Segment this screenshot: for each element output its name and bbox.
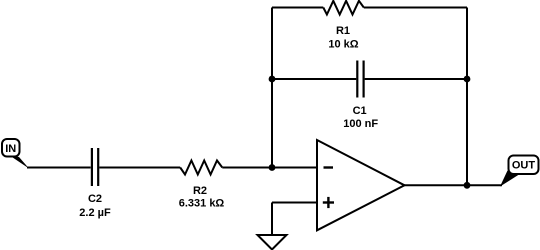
- svg-text:OUT: OUT: [512, 160, 536, 172]
- node junction left-C1: [269, 76, 276, 83]
- wire non-inverting input horizontal: [272, 202, 317, 204]
- wire top-left segment: [272, 7, 323, 9]
- wire input segment 3 (to inverting input): [222, 167, 317, 169]
- resistor R2: [180, 161, 222, 175]
- wire right vertical: [466, 8, 468, 186]
- wire non-inverting input vertical: [271, 203, 273, 235]
- wire output: [405, 184, 503, 186]
- svg-text:R2: R2: [193, 185, 207, 197]
- ground: [258, 235, 287, 250]
- node junction right-C1: [464, 76, 471, 83]
- svg-text:R1: R1: [336, 25, 350, 37]
- wire input segment 1: [27, 167, 91, 169]
- op-amp U1: [317, 140, 405, 230]
- capacitor C1: [357, 61, 363, 98]
- svg-text:2.2 µF: 2.2 µF: [79, 207, 111, 219]
- svg-text:C2: C2: [88, 193, 102, 205]
- svg-text:IN: IN: [5, 143, 16, 155]
- svg-text:6.331 kΩ: 6.331 kΩ: [179, 198, 225, 210]
- node junction output: [464, 182, 471, 189]
- wire top-right segment: [364, 7, 467, 9]
- svg-text:C1: C1: [353, 105, 367, 117]
- resistor R1: [323, 1, 364, 15]
- wire left vertical: [271, 8, 273, 168]
- wire C1 branch right: [365, 78, 467, 80]
- node junction left-input: [269, 164, 276, 171]
- capacitor C2: [92, 148, 98, 186]
- wire C1 branch left: [272, 78, 356, 80]
- svg-text:100 nF: 100 nF: [343, 118, 378, 130]
- svg-text:10 kΩ: 10 kΩ: [328, 38, 358, 50]
- wire input segment 2: [99, 167, 180, 169]
- net flag OUT: [500, 156, 539, 187]
- net flag IN: [2, 139, 29, 169]
